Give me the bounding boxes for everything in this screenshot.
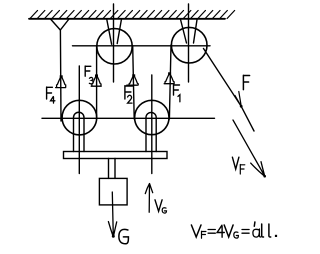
top axle line bbox=[73, 45, 211, 47]
pulley U4 center line bbox=[151, 75, 153, 174]
pulley U3 fork bracket bbox=[74, 112, 85, 151]
pulley U4 (movable pulley circle) bbox=[135, 100, 169, 134]
force arrow F (arrowhead on diagonal rope) bbox=[235, 92, 243, 108]
force arrow F4 bbox=[56, 75, 66, 87]
weight block G bbox=[99, 178, 127, 205]
velocity arrow VG bbox=[145, 184, 152, 213]
force arrow F3 bbox=[91, 74, 101, 86]
pulley U2 center line bbox=[188, 4, 190, 82]
velocity arrow VF bbox=[233, 120, 266, 178]
pulley U2 bracket (V hanger) bbox=[180, 19, 197, 43]
pulley U1 bracket (V hanger) bbox=[107, 19, 122, 44]
ceiling hatching bbox=[30, 11, 235, 19]
wire rope F (diagonal pull rope) bbox=[204, 49, 255, 132]
label F3 bbox=[85, 66, 91, 76]
wire rope F3 bbox=[96, 46, 98, 119]
label F2 bbox=[125, 86, 133, 99]
label VG bbox=[155, 200, 162, 212]
wire rope F1 bbox=[169, 45, 171, 119]
equation VF = 4 VG = all. bbox=[191, 225, 249, 238]
label F1 bbox=[174, 85, 180, 95]
ceiling hook triangle (left attachment) bbox=[51, 19, 70, 30]
label F4 bbox=[47, 87, 53, 99]
label VF bbox=[232, 157, 244, 174]
link rods to weight bbox=[109, 159, 116, 179]
pulley U4 fork bracket bbox=[146, 112, 156, 151]
crossbar bbox=[64, 152, 168, 159]
force arrow F2 bbox=[127, 74, 138, 85]
label F bbox=[243, 75, 249, 89]
ceiling line bbox=[29, 18, 225, 20]
weight arrow G bbox=[108, 192, 116, 238]
pulley U1 center line bbox=[113, 4, 115, 82]
wire rope F4 (left vertical rope) bbox=[59, 30, 62, 121]
force arrow F1 bbox=[164, 72, 174, 83]
pulley U2 (fixed pulley circle) bbox=[171, 27, 207, 63]
pulley U3 (movable pulley circle) bbox=[62, 100, 97, 135]
label G bbox=[119, 229, 129, 243]
lower axle line bbox=[42, 117, 215, 119]
wire rope F2 bbox=[133, 46, 135, 119]
pulley U3 center line bbox=[78, 66, 80, 174]
pulley U1 (fixed pulley circle) bbox=[97, 29, 132, 64]
